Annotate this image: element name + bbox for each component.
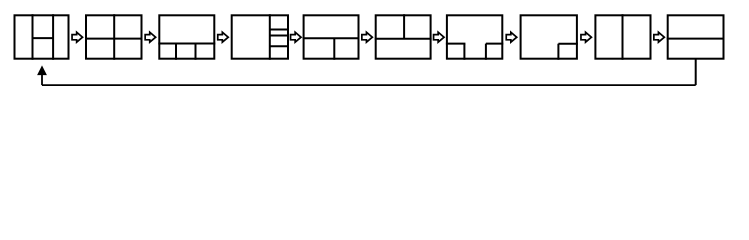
floorplan box 5 bbox=[303, 15, 360, 60]
floorplan box 3 bbox=[158, 15, 215, 60]
floorplan box 9 bbox=[595, 14, 650, 60]
floorplan box 2 bbox=[85, 14, 143, 60]
floorplan box 6 bbox=[375, 14, 432, 59]
feedback wire: bottom horizontal run bbox=[42, 84, 696, 86]
block arrow 9 bbox=[654, 32, 665, 42]
block arrow 3 bbox=[218, 32, 229, 42]
floorplan box 7 bbox=[446, 15, 503, 60]
floorplan box 10 bbox=[667, 15, 725, 58]
feedback arrowhead into box 1 bbox=[37, 65, 47, 75]
block arrow 7 bbox=[506, 32, 517, 42]
block arrow 1 bbox=[72, 32, 83, 42]
block arrow 2 bbox=[145, 32, 156, 42]
feedback wire: drop from box 10 bbox=[695, 59, 697, 86]
block arrow 6 bbox=[434, 32, 445, 42]
feedback wire: left riser bbox=[41, 74, 43, 86]
block arrow 8 bbox=[581, 32, 592, 42]
floorplan box 8 bbox=[521, 15, 578, 60]
floorplan box 1 bbox=[15, 14, 69, 60]
block arrow 5 bbox=[362, 32, 373, 42]
floorplan box 4 bbox=[232, 14, 289, 60]
block arrow 4 bbox=[291, 32, 302, 42]
